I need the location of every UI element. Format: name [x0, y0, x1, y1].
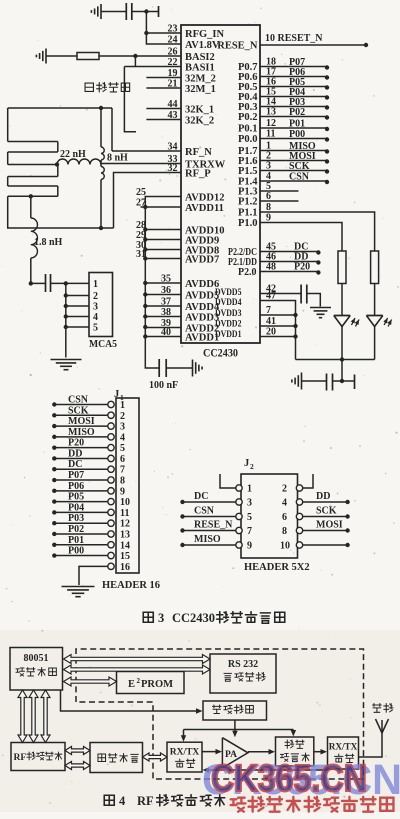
- svg-text:3: 3: [158, 611, 164, 625]
- arrow MCU-EEPROM: [64, 677, 117, 686]
- node: [316, 250, 320, 254]
- svg-text:32M_2: 32M_2: [185, 74, 216, 85]
- ground: [45, 49, 47, 64]
- J1 pin 9 circle: [108, 488, 114, 494]
- svg-text:P0.1: P0.1: [238, 124, 258, 135]
- wire: [307, 294, 321, 307]
- wire stub with terminator: [146, 11, 158, 13]
- wire pin45 DC: [260, 251, 318, 253]
- wire J2 left CSN: [183, 516, 236, 518]
- arrow match-RXTX: [143, 753, 168, 761]
- wire J1-11 P04: [54, 511, 108, 513]
- arrow LPF-RXTX2: [314, 751, 324, 753]
- capacitor C3 100nF: [158, 359, 160, 377]
- svg-text:10 RESET_N: 10 RESET_N: [265, 33, 323, 44]
- wire crystal stub: [124, 67, 136, 132]
- svg-text:8 nH: 8 nH: [107, 153, 128, 164]
- wire LED2 down: [374, 327, 376, 360]
- box RF chip: [11, 743, 65, 771]
- wire J2 left MISO: [183, 544, 236, 546]
- wire: [101, 11, 126, 13]
- wire pin31: [145, 258, 181, 260]
- supply rail: [296, 359, 375, 361]
- arrow MCU-RF 3: [41, 690, 50, 743]
- svg-text:P01: P01: [68, 535, 84, 546]
- wire J2 right: [303, 501, 348, 503]
- svg-text:1: 1: [93, 279, 98, 290]
- svg-text:P04: P04: [68, 502, 84, 513]
- node: [64, 293, 68, 297]
- serpentine right col: [57, 142, 59, 153]
- J2 pin 5 circle: [236, 513, 242, 519]
- node: [364, 43, 368, 47]
- node: [325, 127, 329, 131]
- node: [52, 424, 56, 428]
- wire J2-1: [220, 474, 236, 488]
- underline: [286, 150, 317, 152]
- node: [325, 180, 329, 184]
- terminator: [354, 375, 356, 390]
- node: [52, 467, 56, 471]
- node: [64, 304, 68, 308]
- svg-text:CK365.CN: CK365.CN: [211, 758, 367, 800]
- svg-text:SCK: SCK: [289, 161, 310, 172]
- capacitor C5: [326, 374, 328, 391]
- svg-text:13: 13: [120, 529, 130, 540]
- box 80051 MCU: [10, 648, 63, 691]
- wire pin10 RESET_N: [260, 44, 366, 46]
- wire pin46 DD: [260, 261, 318, 263]
- serpentine feed row: [8, 164, 57, 166]
- node: [64, 314, 68, 318]
- node avdd: [143, 256, 147, 260]
- svg-text:22: 22: [168, 57, 178, 68]
- node: [293, 324, 297, 328]
- node top junction: [99, 106, 103, 110]
- wire pin9 to R3: [260, 223, 342, 252]
- wire pin5: [260, 190, 299, 192]
- ground left: [301, 373, 303, 390]
- svg-text:MCA5: MCA5: [89, 338, 117, 350]
- node: [345, 528, 349, 532]
- ground mca: [51, 359, 82, 361]
- resistor R1: [77, 53, 99, 60]
- wire: [166, 367, 192, 369]
- wire pin44: [146, 108, 181, 110]
- LED D1: [334, 315, 350, 317]
- svg-text:CSN: CSN: [68, 395, 89, 406]
- box LPF: [276, 737, 314, 766]
- J2 pin 10 circle: [296, 542, 302, 548]
- node: [293, 313, 297, 317]
- svg-text:11: 11: [120, 508, 129, 519]
- svg-text:5: 5: [93, 323, 98, 334]
- J1 pin 5 circle: [108, 444, 114, 450]
- wire pin23: [146, 32, 181, 34]
- inductor L1 22nH: [57, 159, 101, 165]
- svg-text:AVDD7: AVDD7: [185, 255, 219, 266]
- svg-text:2: 2: [282, 484, 287, 495]
- capacitor C2: [45, 274, 47, 292]
- label driver cn: [212, 705, 221, 714]
- svg-text:6: 6: [120, 454, 125, 465]
- svg-text:BASI1: BASI1: [185, 63, 215, 74]
- arrow MCU-RS232 a: [64, 655, 211, 664]
- wire pin15 P04: [260, 96, 327, 98]
- svg-text:SCK: SCK: [316, 506, 337, 517]
- node: [325, 137, 329, 141]
- svg-text:8: 8: [266, 202, 271, 213]
- underline: [286, 86, 317, 88]
- node bottom junction: [99, 226, 103, 230]
- underline: [286, 76, 317, 78]
- node: [52, 478, 56, 482]
- wire pin18 P07: [260, 66, 327, 68]
- svg-text:P06: P06: [68, 481, 84, 492]
- J2 pin 3 circle: [236, 499, 242, 505]
- J1 pin 4 circle: [108, 434, 114, 440]
- LED D2: [366, 315, 382, 317]
- J2 pin 2 circle: [296, 485, 302, 491]
- J1 pin 11 circle: [108, 509, 114, 515]
- ground: [192, 360, 194, 377]
- node: [52, 489, 56, 493]
- svg-text:36: 36: [161, 285, 171, 296]
- node: [293, 334, 297, 338]
- node avdd: [143, 205, 147, 209]
- svg-text:P03: P03: [68, 513, 84, 524]
- wire pin13 P02: [260, 116, 327, 118]
- antenna: [376, 719, 383, 733]
- wire pin32: [114, 173, 182, 229]
- svg-text:10: 10: [280, 541, 290, 552]
- svg-text:P1.0: P1.0: [238, 218, 258, 229]
- node: [52, 402, 56, 406]
- wire J2 right: [303, 530, 348, 532]
- svg-text:35: 35: [161, 274, 171, 285]
- svg-text:MISO: MISO: [68, 427, 95, 438]
- box EEPROM: [117, 672, 185, 694]
- J1 pin 10 circle: [108, 498, 114, 504]
- wire: [132, 11, 147, 13]
- watermark slogan: [231, 798, 246, 812]
- return line: [206, 769, 328, 771]
- svg-text:1: 1: [247, 484, 252, 495]
- wire: [51, 282, 90, 284]
- wire J1-16 to gnd: [79, 566, 108, 585]
- J1 pin 13 circle: [108, 531, 114, 537]
- underline: [286, 181, 317, 183]
- svg-text:CC2430: CC2430: [203, 348, 238, 360]
- wire pin35: [145, 282, 181, 284]
- wire J1-6 DD: [54, 457, 108, 459]
- svg-text:9: 9: [120, 486, 125, 497]
- svg-text:19: 19: [168, 68, 178, 79]
- wire pin17 P06: [260, 76, 327, 78]
- svg-text:3: 3: [247, 498, 252, 509]
- underline: [286, 138, 317, 140]
- svg-text:AVDD11: AVDD11: [185, 203, 224, 214]
- rail to RXTX1: [183, 730, 185, 739]
- label antenna cn: [372, 703, 381, 712]
- J2 pin 7 circle: [236, 527, 242, 533]
- underline: [286, 66, 317, 68]
- svg-text:7: 7: [120, 465, 125, 476]
- wire: [46, 55, 77, 57]
- node avdd: [143, 281, 147, 285]
- svg-text:P02: P02: [68, 524, 84, 535]
- svg-text:16: 16: [120, 562, 130, 573]
- wire pin42: [260, 293, 301, 295]
- rail to LPF: [292, 730, 294, 734]
- svg-text:41: 41: [266, 316, 276, 327]
- wire pin30: [145, 249, 181, 251]
- wire to pin23/24: [146, 12, 181, 45]
- wire pin34 riser: [111, 108, 113, 151]
- wire pin21: [146, 87, 181, 89]
- wire pin25: [147, 196, 181, 198]
- wire pin41: [260, 325, 296, 327]
- svg-text:P1.1: P1.1: [238, 208, 258, 219]
- wire J1-3 MOSI: [54, 425, 108, 427]
- node avdd: [143, 292, 147, 296]
- svg-text:20: 20: [266, 327, 276, 338]
- svg-text:40: 40: [161, 327, 171, 338]
- svg-text:21: 21: [168, 79, 178, 90]
- svg-text:80051: 80051: [24, 653, 49, 664]
- svg-text:4: 4: [282, 498, 287, 509]
- J1 pin 6 circle: [108, 455, 114, 461]
- wire pin12 P01: [260, 127, 327, 129]
- svg-text:2: 2: [93, 291, 98, 302]
- svg-text:32K_2: 32K_2: [185, 116, 214, 127]
- svg-text:DVDD5: DVDD5: [215, 288, 242, 298]
- wire pin38: [145, 316, 181, 318]
- wire pin14 P03: [260, 106, 327, 108]
- svg-text:5: 5: [247, 512, 252, 523]
- caption fig3: [143, 612, 153, 622]
- wire J2 left DC: [183, 501, 236, 503]
- label RXTX1 cn: [175, 759, 184, 767]
- node avdd: [143, 247, 147, 251]
- svg-text:P05: P05: [68, 492, 84, 503]
- svg-text:RS 232: RS 232: [228, 659, 258, 670]
- node: [52, 413, 56, 417]
- svg-text:8: 8: [282, 526, 287, 537]
- wire pin7: [260, 314, 296, 316]
- svg-text:9: 9: [266, 213, 271, 224]
- node: [325, 95, 329, 99]
- inductor L3 1.8nH: [30, 196, 32, 218]
- svg-text:DVDD4: DVDD4: [215, 298, 242, 308]
- node: [325, 65, 329, 69]
- node: [340, 379, 344, 383]
- svg-text:P0.2: P0.2: [238, 112, 258, 123]
- wire pin26: [99, 55, 181, 57]
- wire down to pin22: [134, 56, 136, 67]
- wire J1-5 P20: [54, 447, 108, 449]
- node avdd: [143, 325, 147, 329]
- svg-text:24: 24: [168, 35, 178, 46]
- svg-text:P1.5: P1.5: [238, 166, 258, 177]
- J2 pin 6 circle: [296, 513, 302, 519]
- rail driver: [184, 729, 294, 731]
- svg-text:RESE_N: RESE_N: [217, 41, 258, 52]
- node 1.8nH tap: [29, 194, 33, 198]
- wire pin20: [260, 336, 296, 338]
- svg-text:MISO: MISO: [194, 534, 221, 545]
- wire J1-2 SCK: [54, 414, 108, 416]
- wire pin16 P05: [260, 86, 327, 88]
- node cap left: [29, 281, 33, 285]
- svg-text:4: 4: [93, 312, 98, 323]
- svg-text:P02: P02: [289, 107, 305, 118]
- noise: [255, 22, 256, 23]
- svg-text:1.8 nH: 1.8 nH: [34, 237, 63, 248]
- wire J1-1 CSN: [54, 404, 108, 406]
- wire: [302, 380, 327, 382]
- svg-text:PROM: PROM: [141, 679, 173, 690]
- node avdd: [143, 314, 147, 318]
- svg-text:43: 43: [168, 110, 178, 121]
- wire pin29: [145, 239, 181, 241]
- serpentine top row: [8, 107, 112, 109]
- svg-text:DC: DC: [194, 491, 208, 502]
- J2 pin 9 circle: [236, 542, 242, 548]
- wire pin3 SCK: [260, 170, 327, 172]
- svg-text:38: 38: [161, 307, 171, 318]
- svg-text:CC2430: CC2430: [172, 611, 215, 625]
- svg-text:DD: DD: [316, 491, 330, 502]
- node: [325, 169, 329, 173]
- node: [180, 514, 184, 518]
- IC U1 CC2430 body: [181, 25, 260, 343]
- arrow MCU-RF 2: [29, 690, 38, 743]
- wire J1-12 P03: [54, 522, 108, 524]
- arrow MCU-RS232 b: [64, 665, 211, 674]
- wire pin19: [146, 77, 181, 79]
- node: [52, 532, 56, 536]
- svg-text:P2.0: P2.0: [238, 267, 257, 278]
- arrow RF-match a: [65, 747, 90, 755]
- svg-text:J: J: [244, 458, 249, 469]
- svg-text:RF_P: RF_P: [185, 169, 211, 180]
- wire J1-10 P05: [54, 501, 108, 503]
- wire pin48 P20: [260, 271, 318, 273]
- J1 pin 16 circle: [108, 563, 114, 569]
- svg-text:5: 5: [120, 443, 125, 454]
- svg-text:2: 2: [137, 677, 141, 685]
- node: [52, 543, 56, 547]
- wire pin27: [141, 206, 182, 208]
- wire pin39: [145, 327, 181, 329]
- svg-text:13: 13: [266, 107, 276, 118]
- svg-text:44: 44: [168, 99, 178, 110]
- underline: [286, 128, 317, 130]
- capacitor C4: [300, 285, 302, 304]
- wire pin2 MOSI: [260, 160, 327, 162]
- node: [52, 456, 56, 460]
- wire J2-2: [303, 474, 313, 488]
- svg-text:12: 12: [266, 118, 276, 129]
- caption fig4: [104, 795, 114, 805]
- box RXTX switch 1: [167, 742, 202, 772]
- ground: [310, 307, 331, 309]
- J1 pin 8 circle: [108, 477, 114, 483]
- node: [345, 543, 349, 547]
- svg-text:P0.0: P0.0: [238, 134, 258, 145]
- svg-text:8: 8: [120, 476, 125, 487]
- box match: [90, 743, 143, 773]
- node: [52, 510, 56, 514]
- svg-text:BASI2: BASI2: [185, 52, 215, 63]
- wire J2 right: [303, 516, 348, 518]
- wire LED1 down: [341, 327, 343, 382]
- label RS232 cn: [224, 673, 232, 681]
- svg-text:P00: P00: [289, 129, 305, 140]
- ground J1: [62, 586, 95, 588]
- J1 pin 1 circle: [108, 401, 114, 407]
- node: [316, 270, 320, 274]
- svg-text:SCK: SCK: [68, 405, 89, 416]
- svg-text:14: 14: [120, 540, 130, 551]
- node pin26: [133, 54, 137, 58]
- node: [325, 159, 329, 163]
- underline: [286, 96, 317, 98]
- wire pin34: [112, 150, 181, 152]
- svg-text:CSN: CSN: [289, 172, 310, 183]
- svg-text:P00: P00: [68, 546, 84, 557]
- wire pin8 to R2: [260, 212, 375, 251]
- wire mca stub: [66, 305, 89, 307]
- wire pin22: [124, 66, 181, 68]
- node: [325, 149, 329, 153]
- svg-text:32K_1: 32K_1: [185, 105, 214, 116]
- wire J2 right: [303, 544, 348, 546]
- svg-text:P20: P20: [294, 262, 310, 273]
- svg-text:1: 1: [120, 400, 125, 411]
- wire 8nH top: [100, 108, 102, 147]
- J1 pin 7 circle: [108, 466, 114, 472]
- svg-text:P01: P01: [289, 119, 305, 130]
- connector J1 HEADER16: [116, 398, 139, 573]
- wire mca stub: [66, 316, 89, 318]
- node: [52, 521, 56, 525]
- svg-text:RF: RF: [137, 794, 154, 808]
- wire pin40: [145, 336, 181, 338]
- amp PA: [222, 738, 248, 768]
- arrow MCU-RF 1: [18, 690, 27, 743]
- connector J2 HEADER5X2: [241, 474, 298, 558]
- node: [325, 115, 329, 119]
- underline: [286, 116, 317, 118]
- svg-text:E: E: [128, 679, 135, 690]
- wire 8nH bottom: [100, 180, 102, 229]
- svg-text:26: 26: [168, 47, 178, 58]
- J2 pin 4 circle: [296, 499, 302, 505]
- svg-text:DC: DC: [68, 459, 82, 470]
- J2 pin 1 circle: [236, 485, 242, 491]
- dashed boundary: [76, 649, 364, 779]
- label MCU cn: [16, 668, 25, 676]
- svg-text:RFG_IN: RFG_IN: [185, 29, 225, 40]
- svg-text:10: 10: [120, 497, 130, 508]
- bus avdd: [145, 197, 159, 369]
- svg-text:P1.2: P1.2: [238, 197, 258, 208]
- J1 pin 2 circle: [108, 412, 114, 418]
- serpentine rows: [8, 141, 58, 143]
- svg-text:12: 12: [120, 519, 130, 530]
